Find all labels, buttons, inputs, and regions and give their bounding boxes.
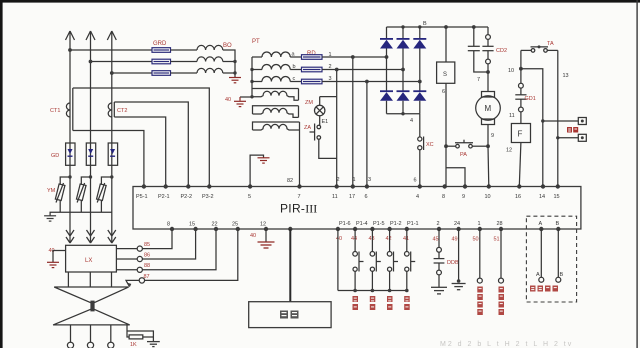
junction wire2-D2 — [401, 68, 405, 72]
svg-text:CT1: CT1 — [50, 108, 60, 114]
transformer CT1 — [66, 88, 72, 131]
label sensor2 (vertical blob) — [499, 287, 505, 316]
svg-text:10: 10 — [508, 68, 514, 74]
wire pin B down — [556, 229, 564, 282]
PT primary coil c — [252, 77, 302, 82]
svg-text:LX: LX — [85, 258, 92, 264]
border right line — [636, 0, 637, 348]
ground LX (red) — [47, 262, 59, 267]
wire bowtie leg1 — [70, 325, 72, 342]
pin 2 bottom — [433, 221, 442, 243]
junction node 10 — [519, 67, 523, 71]
svg-text:15: 15 — [554, 194, 560, 200]
ground BO (red) — [229, 78, 241, 83]
svg-text:40: 40 — [336, 236, 342, 242]
phase line L3 — [107, 31, 116, 228]
svg-text:ZA: ZA — [304, 125, 311, 131]
svg-text:88: 88 — [144, 263, 150, 269]
PT primary coil b — [252, 65, 302, 70]
svg-text:B: B — [423, 21, 427, 27]
pin 7 top — [297, 184, 301, 200]
svg-text:8: 8 — [442, 194, 445, 200]
contact PA — [444, 140, 490, 148]
wire bowtie leg3 — [110, 325, 112, 342]
inductor BO-1 — [197, 45, 223, 50]
svg-text:6: 6 — [442, 89, 445, 95]
pushbutton PB1 — [353, 229, 364, 292]
pin P3-2 top — [202, 184, 214, 200]
svg-text:4: 4 — [410, 118, 413, 124]
wire TA right to pin 15 — [557, 50, 559, 186]
arrester GD-2 — [86, 143, 95, 165]
pin 22 bottom — [212, 222, 219, 232]
svg-text:11: 11 — [332, 194, 338, 200]
wire F to pin 16 — [519, 143, 521, 187]
pin 24 bottom — [452, 221, 461, 243]
svg-text:GRD: GRD — [153, 41, 167, 47]
wire phase3 to GRD fuse row3 — [110, 71, 152, 75]
svg-text:9: 9 — [462, 194, 465, 200]
pin 1 bottom — [473, 221, 482, 243]
wire CT1 secondary bottom to pin P5-1 — [73, 131, 144, 187]
wire BO outputs to common — [223, 50, 235, 77]
svg-text:4: 4 — [416, 194, 419, 200]
wire common 40 down — [337, 229, 339, 291]
brake contact CD2 — [482, 27, 493, 74]
wire LX row3 to pin — [116, 229, 216, 272]
PT secondary winding 3 — [253, 122, 300, 130]
svg-text:12: 12 — [506, 148, 512, 154]
varistor YM-1 — [55, 175, 71, 212]
wire bowtie leg2 — [90, 325, 92, 342]
wire LX row1 to pin — [116, 229, 172, 251]
cable reel center bar — [90, 301, 94, 312]
svg-text:28: 28 — [497, 221, 503, 227]
fuse RD-2 — [302, 67, 323, 72]
wire fuse2 to BO2 — [171, 61, 198, 63]
border left bar — [0, 0, 3, 348]
pin 15 bottom — [189, 222, 198, 232]
diode D6 bottom — [413, 82, 426, 114]
svg-text:c: c — [293, 76, 296, 82]
wire pin28 to sensor circle — [499, 229, 504, 283]
wire phase1 to GRD fuse row1 — [68, 48, 152, 52]
label button3 (blob) — [387, 296, 393, 310]
svg-text:BO: BO — [223, 43, 232, 49]
svg-text:B: B — [560, 272, 564, 278]
pin 15 top — [554, 184, 561, 200]
arrow phase2 into LX — [87, 228, 95, 243]
svg-text:15: 15 — [189, 222, 195, 228]
wire pin24 to ground — [457, 229, 461, 283]
svg-text:25: 25 — [232, 222, 238, 228]
lamp branch bottom wire — [319, 139, 337, 158]
pushbutton TA — [521, 45, 558, 52]
fuse GRD-2 — [152, 59, 171, 64]
inductor BO-3 — [197, 68, 223, 73]
wire B to S — [445, 27, 447, 62]
wire pin 5 to ground — [250, 155, 263, 186]
terminal run bottom — [578, 134, 586, 141]
pin 4 top — [416, 184, 422, 200]
svg-text:12: 12 — [260, 222, 266, 228]
pin 44 bottom — [351, 227, 357, 242]
svg-text:43: 43 — [369, 236, 375, 242]
wire PT bus to ground — [240, 96, 252, 98]
diode D4 bottom — [380, 57, 393, 114]
wire display feed — [289, 229, 291, 302]
svg-text:1K: 1K — [130, 342, 137, 348]
pushbutton ZA — [310, 124, 321, 141]
svg-text:45: 45 — [433, 237, 439, 243]
cable reel bowtie upper triangle — [54, 287, 128, 304]
svg-text:41: 41 — [403, 236, 409, 242]
pin 9 top — [462, 184, 467, 200]
svg-text:7: 7 — [298, 194, 301, 200]
pin 6 top — [365, 184, 370, 200]
wire pin12 to ground — [265, 229, 267, 242]
wire bowtie slip arrow to circle — [126, 280, 139, 287]
wire CT2 secondary top to pin P2-2 — [114, 102, 188, 187]
diode D3 top — [413, 27, 426, 82]
svg-text:TA: TA — [547, 41, 554, 47]
svg-text:P1-2: P1-2 — [390, 221, 402, 227]
pin 41 bottom — [403, 227, 409, 242]
arrester GD-3 — [108, 143, 117, 165]
ground YM — [44, 216, 56, 221]
varistor YM-3 — [97, 175, 114, 212]
label button4 (blob) — [404, 296, 410, 310]
pushbutton PB2 — [370, 229, 381, 292]
fuse GRD-1 — [152, 48, 171, 53]
svg-text:S: S — [443, 72, 447, 78]
svg-text:P3-2: P3-2 — [202, 194, 214, 200]
label button1 (blob) — [353, 296, 359, 310]
PT secondary winding 2 — [253, 106, 299, 118]
wire 2 — [322, 69, 403, 71]
phase line L2 — [86, 31, 95, 228]
svg-text:DDB: DDB — [447, 260, 459, 266]
svg-text:PT: PT — [252, 39, 260, 45]
svg-text:16: 16 — [515, 194, 521, 200]
pin 12 bottom — [260, 222, 268, 232]
svg-text:10: 10 — [485, 194, 491, 200]
pin 10 top — [485, 184, 491, 200]
fuse RD-3 — [302, 79, 323, 84]
svg-text:GD1: GD1 — [525, 96, 536, 102]
svg-text:b: b — [293, 64, 296, 70]
pin 43 bottom — [369, 227, 375, 242]
resistor 1K wire — [127, 326, 153, 342]
ground DDB — [431, 287, 447, 294]
svg-text:86: 86 — [144, 252, 150, 258]
svg-text:3: 3 — [368, 177, 371, 183]
svg-text:85: 85 — [144, 242, 150, 248]
svg-text:87: 87 — [144, 274, 150, 280]
svg-text:P1-4: P1-4 — [356, 221, 368, 227]
PT primary coil a — [252, 52, 302, 57]
relay F box — [511, 124, 530, 143]
svg-text:P2-2: P2-2 — [181, 194, 193, 200]
wire to run terminal top — [541, 119, 578, 122]
svg-text:44: 44 — [351, 236, 357, 242]
border top bar — [0, 0, 640, 3]
diode D5 bottom — [397, 70, 410, 114]
svg-text:14: 14 — [539, 194, 545, 200]
junction wire1-D1 — [385, 55, 389, 59]
svg-text:XC: XC — [426, 142, 434, 148]
svg-text:CT2: CT2 — [117, 108, 127, 114]
svg-text:P1-5: P1-5 — [373, 221, 385, 227]
controller LX — [66, 245, 117, 272]
pin B bottom — [556, 221, 561, 231]
wire 1 drop to pin 17 — [351, 55, 355, 186]
arrester GD-1 — [66, 143, 75, 165]
pin 40 bottom button group — [336, 227, 342, 242]
wire 3 drop to pin 6 — [365, 80, 369, 187]
wire phase2 to GRD fuse row2 — [89, 60, 152, 64]
svg-text:B: B — [556, 221, 560, 227]
svg-text:A: A — [536, 272, 540, 278]
PT secondary winding 1 — [250, 89, 298, 101]
ground 1K — [147, 342, 160, 347]
label sensor1 (vertical blob) — [477, 287, 483, 316]
wire motor to pin 10 — [487, 146, 490, 186]
wire YM common — [50, 212, 112, 215]
wire GD1 to F — [520, 112, 522, 124]
svg-text:F: F — [518, 130, 523, 139]
label comms (blob) — [530, 286, 558, 292]
connector XC — [418, 137, 424, 151]
wire 3 — [322, 81, 420, 83]
pushbutton PB4 — [405, 229, 416, 292]
pin 11 top — [332, 184, 339, 200]
cable reel bowtie lower triangle — [53, 309, 130, 325]
wire CT2 secondary bottom to pin P2-1 — [114, 117, 165, 187]
pin P5-1 top — [136, 184, 148, 200]
connector DDB — [434, 229, 445, 287]
diode D2 top — [397, 27, 410, 70]
bus buttons bottom — [338, 290, 407, 292]
transformer CT2 — [108, 102, 114, 117]
pin A bottom — [539, 221, 544, 231]
terminal circle leg2 — [87, 342, 93, 348]
svg-text:P1-1: P1-1 — [407, 221, 419, 227]
wire S to pin 8 — [445, 83, 447, 186]
svg-text:9: 9 — [491, 133, 494, 139]
terminal run top — [578, 118, 586, 125]
bus B — [387, 26, 489, 28]
wire XC to pin 4 — [419, 150, 421, 187]
svg-text:P1-6: P1-6 — [339, 221, 351, 227]
svg-text:51: 51 — [494, 237, 500, 243]
pin P2-1 top — [158, 184, 170, 200]
junction dots on B — [401, 25, 475, 29]
svg-text:A: A — [539, 221, 543, 227]
svg-text:5: 5 — [248, 194, 251, 200]
wire fuse3 to BO3 — [171, 72, 198, 74]
svg-text:50: 50 — [473, 237, 479, 243]
svg-text:13: 13 — [563, 73, 569, 79]
junction PT bus dots — [250, 68, 253, 83]
lamp branch top wire — [320, 96, 337, 98]
svg-text:ZM: ZM — [305, 100, 313, 106]
relay S box — [437, 62, 455, 83]
pin display bottom — [288, 227, 292, 231]
resistor 1K — [129, 335, 143, 339]
motor M — [476, 72, 501, 146]
pin 42 bottom — [386, 227, 392, 242]
wire slip row4 to pin — [145, 229, 238, 280]
label run (blob) — [567, 127, 578, 133]
junction dot bus minus — [401, 112, 404, 115]
fuse GRD-3 — [152, 71, 171, 76]
capacitor C (filter) — [468, 27, 488, 72]
junction BO common — [233, 60, 236, 75]
junction wire3-D3 — [418, 80, 422, 84]
svg-text:40: 40 — [250, 233, 256, 239]
wire 1 — [322, 56, 387, 58]
pin P2-2 top — [181, 184, 193, 200]
svg-text:PA: PA — [460, 152, 467, 158]
pin 28 bottom — [494, 221, 504, 243]
pin 8 top — [442, 184, 447, 200]
varistor YM-2 — [76, 175, 92, 212]
dashed box intrinsic safety — [526, 216, 576, 302]
wire 2 drop to pin 11 — [335, 68, 339, 187]
wire to run terminal bottom — [556, 136, 578, 139]
svg-text:M: M — [485, 104, 492, 113]
pin 16 top — [515, 184, 522, 200]
wire CT1 secondary top to pin P3-2 — [73, 88, 210, 187]
PT primary bus — [251, 57, 253, 97]
svg-text:GD: GD — [51, 153, 59, 159]
display screen box — [249, 302, 331, 328]
wire node10 to pin 14 — [521, 69, 543, 187]
svg-text:11: 11 — [509, 113, 515, 119]
bus rectifier minus — [387, 113, 420, 115]
svg-text:7: 7 — [477, 77, 480, 83]
svg-text:49: 49 — [452, 237, 458, 243]
svg-text:P2-1: P2-1 — [158, 194, 170, 200]
ground PT (red) — [234, 97, 246, 107]
pin 14 top — [539, 184, 545, 200]
svg-text:2: 2 — [437, 221, 440, 227]
svg-text:6: 6 — [365, 194, 368, 200]
wire pin A down — [536, 229, 544, 282]
wire PT winding3 to pin 7 — [299, 130, 301, 187]
label button2 (blob) — [370, 296, 376, 310]
svg-text:17: 17 — [349, 194, 355, 200]
phase line L1 — [66, 31, 75, 228]
ground pin5 (red) — [258, 158, 270, 163]
wire LX to ground — [53, 251, 66, 263]
svg-text:RD: RD — [307, 51, 316, 57]
fuse RD-1 — [302, 55, 323, 60]
svg-text:8: 8 — [167, 222, 170, 228]
svg-text:P5-1: P5-1 — [136, 194, 148, 200]
wire pin1 to sensor circle — [477, 229, 482, 283]
ground pin12 (red) — [258, 242, 275, 248]
wire bus to XC — [419, 114, 421, 137]
svg-text:YM: YM — [47, 188, 56, 194]
main controller PIR-III box — [133, 187, 581, 230]
svg-text:22: 22 — [212, 222, 218, 228]
connector GD1 — [515, 69, 526, 112]
arrow phase1 into LX — [66, 228, 74, 243]
arrow phase3 into LX — [108, 228, 116, 243]
lamp ZM — [315, 97, 325, 125]
svg-text:40: 40 — [225, 97, 231, 103]
svg-text:82: 82 — [287, 178, 293, 184]
inductor BO-2 — [197, 57, 223, 62]
svg-text:6: 6 — [414, 178, 417, 184]
terminal circle slip — [139, 278, 144, 283]
wire LX bottom legs — [68, 272, 111, 287]
ground pin24 — [452, 284, 466, 290]
terminal circle leg3 — [108, 342, 114, 348]
svg-text:E1: E1 — [322, 119, 329, 125]
wire TA left to node 10 — [520, 50, 522, 68]
svg-text:M2 d 2 b L t H 2 t L H 2 tv: M2 d 2 b L t H 2 t L H 2 tv — [440, 341, 573, 348]
svg-text:24: 24 — [454, 221, 460, 227]
svg-text:42: 42 — [386, 236, 392, 242]
pin 8 bottom — [167, 222, 174, 232]
svg-text:PIR-III: PIR-III — [280, 202, 317, 216]
wire LX row2 to pin — [116, 229, 195, 262]
pin 17 top — [349, 184, 355, 200]
wire jog to pin 9 — [446, 168, 465, 187]
label display (blob) — [280, 311, 299, 319]
svg-text:1: 1 — [478, 221, 481, 227]
pin 25 bottom — [232, 222, 240, 232]
diode D1 top — [380, 27, 393, 57]
svg-text:CD2: CD2 — [496, 48, 507, 54]
pushbutton PB3 — [387, 229, 398, 292]
terminal circle leg1 — [67, 342, 73, 348]
wire fuse1 to BO1 — [171, 49, 198, 51]
pin 5 top — [248, 184, 252, 200]
